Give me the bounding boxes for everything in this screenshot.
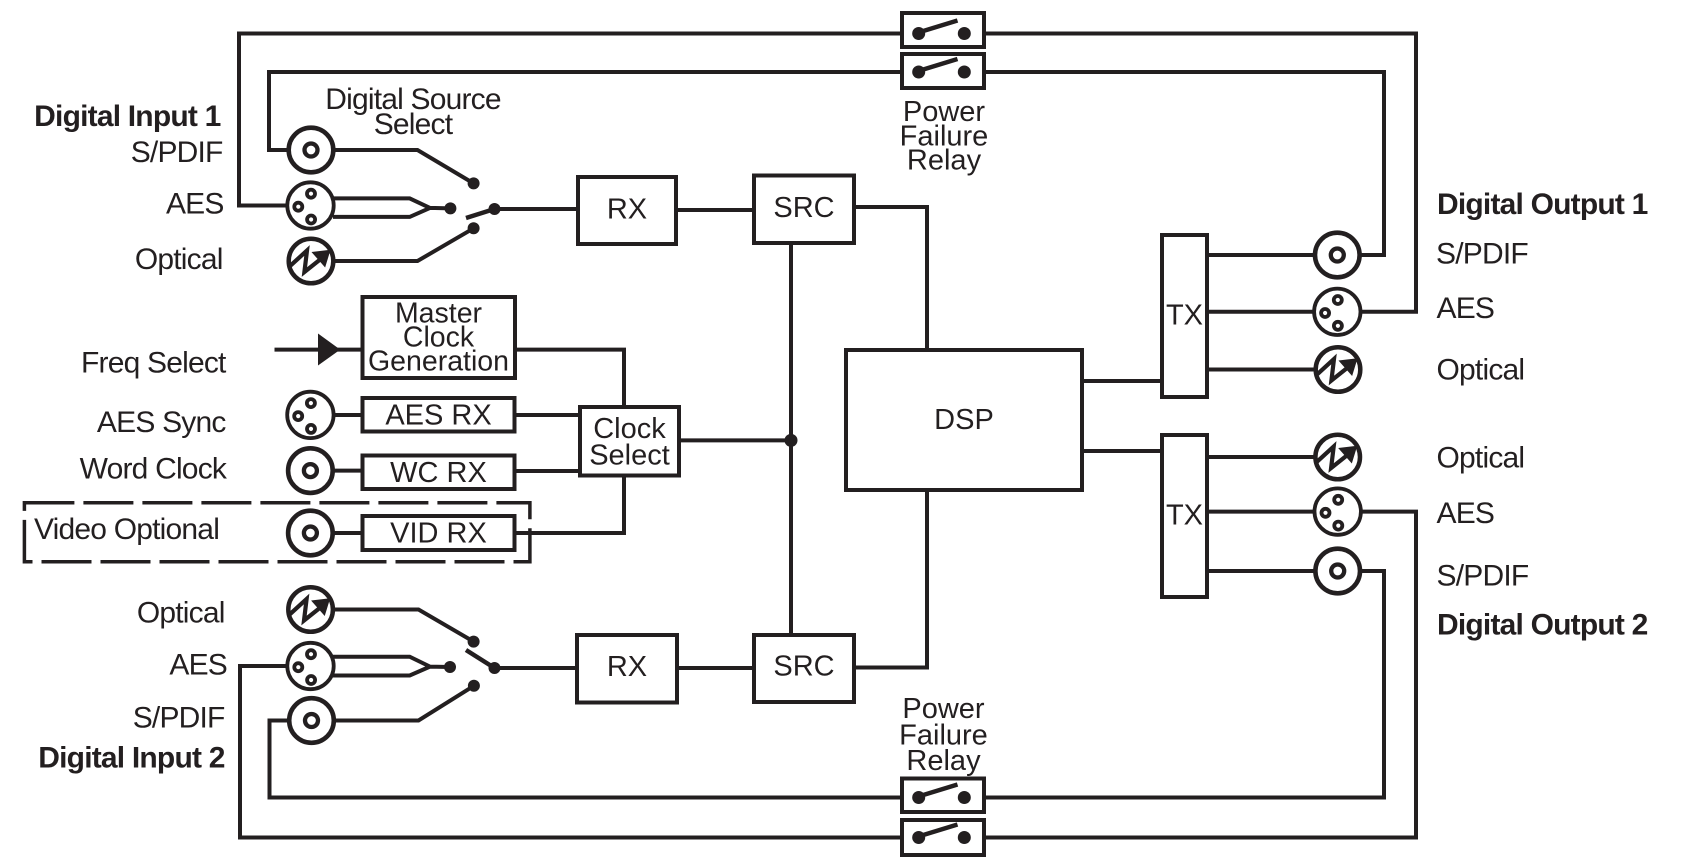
connector Optical input 1: [289, 239, 334, 284]
wire DSP bottom to SRC2: [856, 492, 927, 668]
wire S/PDIF input 1 to switch contact: [333, 150, 473, 183]
svg-text:Word Clock: Word Clock: [80, 453, 228, 486]
svg-text:RX: RX: [607, 651, 647, 683]
wire: power failure relay 3 to S/PDIF output 2 (right segment): [971, 571, 1384, 798]
block TX1: [1162, 235, 1207, 397]
wire: power failure relay 2 to S/PDIF output 1 (right segment): [971, 72, 1384, 255]
wire DSP to TX2: [1084, 449, 1160, 453]
block AES RX: [363, 398, 515, 432]
block WC RX: [363, 456, 515, 490]
connector S/PDIF input 2 (RCA): [289, 698, 334, 743]
wire TX2 to AES output 2: [1209, 510, 1314, 514]
wire VID RX to Clock Select (bottom): [517, 478, 625, 534]
block RX1: [578, 177, 676, 244]
relay K3 box: [902, 779, 984, 813]
connector S/PDIF output 2 (RCA): [1315, 549, 1360, 594]
wire Clock Select to bus junction: [681, 438, 791, 442]
wire TX1 to Optical output 1: [1209, 368, 1316, 372]
connector AES output 1 (XLR): [1314, 289, 1360, 335]
svg-text:Relay: Relay: [906, 745, 981, 777]
block SRC2: [754, 635, 854, 702]
svg-text:RX: RX: [607, 194, 647, 226]
relay K4 contacts: [912, 825, 971, 845]
switch SW2 lever: [466, 650, 495, 668]
svg-text:S/PDIF: S/PDIF: [1437, 560, 1529, 593]
wire: S/PDIF input 1 to power failure relay 2 (left segment): [269, 72, 912, 150]
wire TX2 to Optical output 2: [1209, 455, 1316, 459]
svg-text:S/PDIF: S/PDIF: [1436, 238, 1528, 271]
svg-text:AES: AES: [1437, 292, 1495, 325]
connector S/PDIF output 1 (RCA): [1315, 233, 1360, 278]
svg-text:Digital Output 2: Digital Output 2: [1437, 609, 1648, 642]
wire WC RX to Clock Select: [517, 469, 579, 473]
svg-text:AES Sync: AES Sync: [97, 406, 226, 439]
block Master Clock Generation: [363, 297, 516, 378]
svg-text:Select: Select: [374, 108, 454, 141]
switch SW1 pivot dot: [489, 203, 501, 215]
dashed box Video Optional: [24, 503, 530, 562]
svg-text:DSP: DSP: [934, 404, 994, 436]
AES input 2 fork symbol: [333, 657, 450, 676]
svg-text:Digital Input 2: Digital Input 2: [38, 742, 224, 775]
svg-text:Digital Input 1: Digital Input 1: [34, 100, 220, 133]
connector S/PDIF input 1 (RCA): [289, 128, 334, 173]
svg-text:AES: AES: [1437, 497, 1495, 530]
svg-text:SRC: SRC: [773, 651, 834, 683]
connector Optical output 1: [1316, 347, 1361, 392]
svg-text:VID RX: VID RX: [390, 518, 487, 550]
wire RX2 to SRC2: [679, 666, 752, 670]
connector Optical input 2: [288, 587, 333, 632]
svg-text:TX: TX: [1166, 300, 1203, 332]
wire: AES input 1 to power failure relay 1 (left segment): [239, 34, 912, 206]
svg-text:Video Optional: Video Optional: [34, 513, 219, 546]
connector AES output 2 (XLR): [1315, 488, 1361, 534]
block VID RX: [363, 516, 515, 550]
switch SW1 lever: [466, 209, 495, 218]
svg-text:Optical: Optical: [137, 596, 225, 629]
wire: AES input 2 to power failure relay 4 (left segment): [240, 666, 912, 838]
switch SW1 contact dots: [468, 177, 480, 189]
wire Optical input 2 to switch contact: [333, 610, 474, 642]
relay K3 contacts: [912, 785, 971, 805]
wire Optical input 1 to switch contact: [334, 228, 474, 261]
wire Video to VID RX: [335, 531, 361, 535]
block RX2: [577, 635, 677, 703]
connector AES input 1 (XLR): [287, 182, 333, 228]
svg-text:Optical: Optical: [135, 243, 223, 276]
svg-text:Select: Select: [589, 440, 670, 472]
wire switch SW1 to RX1: [495, 207, 577, 211]
wire: power failure relay 4 to AES output 2 (right segment): [971, 512, 1416, 838]
wire SRC1 to DSP (right, down): [856, 207, 927, 348]
block DSP: [846, 350, 1082, 490]
wire Word Clock to WC RX: [335, 469, 361, 473]
svg-text:WC RX: WC RX: [390, 457, 487, 489]
relay K1 contacts: [912, 21, 971, 41]
svg-text:S/PDIF: S/PDIF: [133, 702, 225, 735]
svg-text:TX: TX: [1166, 500, 1203, 532]
block Clock Select: [580, 407, 679, 476]
block SRC1: [754, 176, 854, 244]
AES input 1 fork symbol: [333, 198, 450, 217]
wire TX1 to AES output 1: [1209, 310, 1314, 314]
connector Video (RCA): [288, 511, 333, 556]
Freq Select arrow wire: [275, 348, 361, 352]
connector AES Sync (XLR): [287, 392, 333, 438]
switch SW2 pivot dot: [489, 662, 501, 674]
svg-text:SRC: SRC: [773, 192, 834, 224]
wire: power failure relay 1 to AES output 1 (right segment): [971, 34, 1416, 312]
relay K2 box: [902, 54, 984, 88]
wire AES Sync to AES RX: [335, 413, 361, 417]
relay K4 box: [902, 820, 984, 855]
svg-text:AES: AES: [166, 187, 224, 220]
svg-text:Generation: Generation: [368, 346, 509, 378]
svg-text:Digital Output 1: Digital Output 1: [1437, 188, 1648, 221]
relay K2 contacts: [912, 59, 971, 79]
switch SW2 contact dots: [468, 636, 480, 648]
block TX2: [1162, 435, 1207, 597]
svg-text:Relay: Relay: [907, 145, 982, 177]
wire SRC1 bottom to SRC2 top (vertical bus): [789, 245, 793, 633]
connector Optical output 2: [1315, 435, 1360, 480]
wire AES RX to Clock Select: [517, 413, 579, 417]
svg-text:Optical: Optical: [1437, 354, 1525, 387]
wire: S/PDIF input 2 to power failure relay 3 (left segment): [270, 721, 913, 798]
connector AES input 2 (XLR): [287, 643, 333, 689]
wire RX1 to SRC1: [678, 208, 752, 212]
svg-text:AES: AES: [169, 648, 227, 681]
junction dot clock select bus: [785, 434, 798, 447]
svg-text:Freq Select: Freq Select: [81, 346, 227, 379]
wire DSP to TX1: [1084, 379, 1160, 383]
svg-text:S/PDIF: S/PDIF: [131, 136, 223, 169]
wire S/PDIF input 2 to switch contact: [334, 686, 474, 721]
wire Master Clock Generation to Clock Select (top): [517, 350, 624, 405]
Freq Select arrowhead: [319, 336, 339, 364]
wire switch SW2 to RX2: [495, 666, 576, 670]
relay K1 box: [902, 13, 984, 47]
wire TX2 to S/PDIF output 2: [1209, 569, 1315, 573]
svg-text:AES RX: AES RX: [385, 399, 491, 431]
svg-text:Optical: Optical: [1437, 442, 1525, 475]
connector Word Clock (RCA): [288, 448, 333, 493]
wire TX1 to S/PDIF output 1: [1209, 253, 1315, 257]
